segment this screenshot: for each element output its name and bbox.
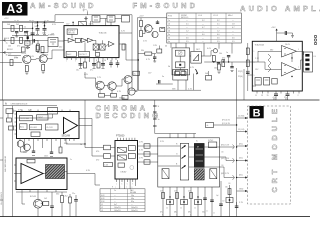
svg-text:10u: 10u [76, 70, 79, 72]
label row under delay pins [115, 187, 133, 189]
svg-text:2k7: 2k7 [174, 191, 177, 193]
svg-text:4b: 4b [165, 46, 167, 48]
wire [140, 27, 142, 31]
bus wire [243, 69, 245, 100]
ground [36, 34, 46, 36]
internal block 3 [117, 155, 126, 160]
svg-text:82p: 82p [131, 201, 134, 203]
wire [190, 55, 191, 57]
IC3100 AM demodulator [64, 26, 119, 58]
svg-text:B: B [253, 107, 261, 119]
ground [291, 36, 294, 38]
resistor R4501 [144, 144, 150, 148]
svg-text:22n: 22n [72, 193, 75, 195]
svg-text:1k: 1k [180, 208, 182, 210]
bias block B1 [255, 78, 261, 86]
op-amp U1a [282, 46, 297, 58]
resistor R4102 [9, 126, 14, 130]
svg-text:4.43: 4.43 [104, 165, 108, 167]
svg-text:—: — [202, 41, 204, 43]
svg-text:(R1): (R1) [239, 144, 243, 146]
delay IC top pin stubs [118, 138, 135, 141]
coil L3201 [160, 28, 165, 32]
capacitor C3212 [227, 56, 230, 57]
wire [65, 139, 67, 145]
svg-text:—: — [232, 34, 234, 36]
preset P4604 [226, 198, 233, 203]
svg-text:—: — [232, 31, 234, 33]
svg-text:MA-LUMINANCE: MA-LUMINANCE [0, 191, 3, 205]
capacitor C3201 [156, 20, 159, 24]
ground [15, 36, 18, 37]
wire [143, 29, 146, 34]
svg-text:BC548: BC548 [30, 196, 36, 198]
transistor T3203 [196, 69, 198, 75]
connector arrow 1a [3, 39, 8, 44]
wire [37, 192, 39, 199]
input connector box 4a [48, 108, 58, 115]
capacitor C4601 [203, 198, 207, 199]
diode D3102 (dark) [27, 31, 29, 41]
wire [37, 208, 39, 217]
svg-text:KILLER: KILLER [30, 127, 37, 129]
wire [179, 68, 181, 70]
resistor R3126 [122, 44, 125, 50]
mixer M1 [93, 44, 99, 50]
svg-text:(F2) 4.5V: (F2) 4.5V [222, 120, 231, 122]
svg-text:150: 150 [221, 165, 224, 167]
resistor R3101 [11, 37, 14, 43]
capacitor C4612 [235, 202, 239, 207]
delay pin drops [119, 182, 135, 189]
IC bottom pin stubs [20, 139, 74, 142]
transistor T4102 [24, 144, 31, 151]
svg-text:17mA: 17mA [89, 23, 95, 26]
wire table feeds [171, 43, 194, 51]
driver stage column [180, 143, 188, 180]
AM-SOUND section border [3, 15, 133, 100]
wire [110, 22, 112, 26]
phase shifter block [191, 51, 202, 63]
svg-text:1a0: 1a0 [8, 54, 11, 56]
wire [105, 94, 111, 96]
svg-text:0.6: 0.6 [232, 38, 235, 40]
IC4500 delay line [115, 141, 138, 180]
wire [152, 28, 153, 30]
ground [23, 152, 53, 156]
acc block [20, 124, 28, 130]
svg-text:—: — [202, 31, 204, 33]
resistor R4601 [162, 193, 165, 199]
resistor R3102 [20, 37, 23, 43]
resistor R3109 [22, 47, 26, 52]
ground [153, 61, 156, 62]
wire [85, 72, 97, 85]
edge connector pins [314, 35, 316, 44]
loudspeaker connector J7600 [304, 52, 317, 72]
svg-text:L 6.0: L 6.0 [198, 15, 202, 17]
transistor T3202 [152, 31, 158, 37]
bias block [162, 169, 169, 179]
svg-text:L1 6.5: L1 6.5 [213, 15, 218, 17]
pin labels [116, 184, 133, 186]
capacitor C7601 [277, 31, 293, 36]
wire [22, 192, 25, 204]
wire [178, 74, 194, 91]
svg-text:13: 13 [261, 95, 263, 97]
harness wire 2 [237, 129, 248, 132]
bottom pin stubs [163, 181, 230, 217]
demod block [31, 132, 40, 137]
bias block B2 [264, 78, 270, 86]
wire [3, 52, 23, 54]
svg-text:6.0: 6.0 [202, 34, 205, 36]
node [236, 146, 237, 147]
capacitor C4105 [32, 151, 35, 152]
svg-text:(G2) 3.1V: (G2) 3.1V [221, 158, 230, 160]
label cluster chroma [18, 110, 99, 173]
wire [8, 55, 21, 57]
internal block 2 [128, 146, 135, 151]
label cluster AM [7, 24, 125, 101]
wire [130, 89, 137, 91]
svg-text:5k6: 5k6 [205, 73, 208, 75]
bandpass filter FL3101 [48, 38, 58, 47]
wire [3, 27, 33, 29]
resistor R3211 [212, 56, 215, 62]
peaking block [27, 159, 35, 163]
svg-text:(B1): (B1) [239, 175, 243, 177]
wire [248, 74, 253, 76]
wire [228, 57, 230, 62]
wire [135, 91, 137, 93]
svg-text:L1: L1 [101, 204, 103, 206]
left input chain [246, 43, 252, 91]
connector labels P3 [238, 71, 251, 78]
capacitor C3105 [15, 32, 18, 37]
AF amp block [173, 70, 188, 81]
svg-text:DETECT: DETECT [79, 54, 87, 56]
svg-text:IDENT: IDENT [37, 117, 44, 119]
wire [291, 53, 293, 62]
FM-SOUND section border [137, 18, 201, 90]
wire [116, 79, 124, 86]
wire [17, 114, 53, 118]
filter box F2 [25, 41, 30, 45]
svg-text:L3: L3 [101, 210, 103, 212]
resistor R4122 [104, 154, 111, 159]
svg-text:68p: 68p [131, 198, 134, 200]
svg-text:100n: 100n [14, 57, 18, 59]
wire [41, 46, 48, 53]
transistor T3102 [39, 53, 47, 63]
node [84, 143, 85, 144]
sync block [208, 142, 216, 148]
resistor R4113 [69, 194, 72, 217]
svg-text:MHz I: MHz I [228, 15, 233, 17]
svg-text:100u/5%: 100u/5% [114, 210, 121, 212]
transistor arrow G [182, 155, 186, 158]
resistor R3122 [97, 62, 100, 68]
luma delay module box [16, 158, 67, 190]
wire [179, 56, 181, 62]
internal block 1 [117, 147, 126, 152]
component value table [100, 189, 145, 212]
mixer M2 [100, 44, 106, 50]
supply decoder block [67, 29, 77, 35]
svg-text:—: — [186, 20, 188, 22]
svg-text:50c: 50c [202, 212, 205, 214]
svg-text:258: 258 [45, 55, 48, 57]
wire [111, 147, 116, 149]
svg-text:150: 150 [221, 152, 224, 154]
svg-text:4a: 4a [168, 41, 170, 43]
svg-text:680: 680 [270, 50, 273, 52]
svg-text:CHROMA: CHROMA [20, 117, 29, 120]
capacitor C3101 [35, 22, 40, 34]
chroma amp block [20, 116, 33, 121]
svg-text:Cx: Cx [114, 190, 116, 192]
preset P4602 [181, 200, 188, 205]
connector B2 [221, 173, 235, 180]
connector arrow 1b [3, 51, 7, 56]
capacitor C3216 [159, 80, 160, 83]
svg-text:1: 1 [254, 51, 255, 53]
svg-text:48c: 48c [174, 212, 177, 214]
+26V feed arrow [271, 27, 278, 42]
svg-text:3b: 3b [168, 38, 170, 40]
svg-text:+12V: +12V [34, 23, 39, 25]
wire AM out [119, 44, 137, 60]
node [213, 61, 214, 62]
node J1 [37, 22, 38, 23]
svg-text:1k: 1k [194, 208, 196, 210]
capacitor C4106 [50, 152, 53, 153]
svg-text:5: 5 [254, 75, 255, 77]
delay line block (hatched) [46, 165, 65, 179]
svg-text:+12V: +12V [139, 16, 144, 18]
wire [79, 119, 92, 126]
fm component cluster [201, 48, 252, 70]
FM vertical feeds [204, 43, 232, 56]
svg-text:15: 15 [267, 95, 269, 97]
wire [65, 171, 68, 173]
resistor R4101 [7, 118, 12, 122]
svg-text:1.2: 1.2 [217, 31, 220, 33]
op-amp U1b [282, 63, 297, 77]
output wire G [220, 157, 234, 161]
audio bus wire down [236, 68, 238, 217]
electrolytic C3121 [76, 62, 83, 72]
svg-text:470: 470 [222, 58, 225, 60]
decoupling caps below [273, 91, 290, 101]
resistor R3108 [10, 60, 13, 66]
resistor R3201 [140, 21, 143, 27]
node [138, 59, 139, 60]
svg-text:2: 2 [298, 95, 299, 97]
svg-text:1.2: 1.2 [186, 31, 189, 33]
svg-text:11: 11 [111, 61, 113, 63]
svg-text:7: 7 [298, 67, 299, 69]
wire [119, 32, 132, 34]
svg-text:1a: 1a [168, 20, 170, 22]
wire [100, 18, 107, 20]
resistor R3110 [36, 46, 39, 52]
label cluster [8, 35, 27, 48]
svg-text:8: 8 [96, 60, 97, 62]
transistor T3201 [144, 25, 152, 33]
output amp A4 [109, 41, 115, 46]
svg-text:—: — [217, 27, 219, 29]
capacitor C3110 [84, 17, 88, 21]
resistor R3105 [11, 25, 14, 31]
resistor R3107 [37, 44, 40, 50]
svg-text:A: A [5, 103, 7, 106]
resistor R4603 [190, 193, 193, 199]
internal block 4 [128, 154, 135, 159]
sheet label A3 badge [2, 2, 28, 16]
section divider line (full width) [0, 99, 320, 101]
ref block [96, 53, 100, 57]
transistor T3104 [108, 82, 116, 90]
resistor R3132 [111, 94, 117, 98]
limiter amp A1 [68, 38, 74, 42]
clock block [46, 124, 59, 130]
svg-text:0.6: 0.6 [186, 38, 189, 40]
svg-text:(G1): (G1) [239, 158, 243, 160]
ident block [37, 115, 49, 120]
svg-text:1k: 1k [206, 211, 208, 213]
wire [99, 90, 101, 94]
label cluster bottom chains [162, 195, 225, 217]
svg-text:3.2: 3.2 [202, 20, 205, 22]
wire [115, 18, 122, 20]
IF input wire [3, 39, 49, 41]
svg-text:x2: x2 [31, 44, 33, 46]
svg-text:100u/5%: 100u/5% [131, 207, 138, 209]
quadrature demod container [172, 48, 190, 75]
resistor R3111 [41, 47, 44, 53]
svg-text:100u/5%: 100u/5% [131, 210, 138, 212]
svg-text:2k7: 2k7 [160, 191, 163, 193]
svg-text:(B2) 3.2V: (B2) 3.2V [221, 173, 230, 175]
wires left feeds [158, 146, 181, 166]
svg-text:TDA1046: TDA1046 [99, 32, 107, 35]
matrix IC block (dark) [194, 143, 204, 167]
svg-text:CRT MODULE: CRT MODULE [270, 105, 279, 192]
svg-text:10k: 10k [219, 53, 222, 55]
svg-text:B: B [190, 215, 191, 217]
bottom ground bus line [0, 216, 310, 218]
resistor R3221 [138, 52, 156, 55]
svg-text:6.0: 6.0 [217, 34, 220, 36]
svg-text:DECOD: DECOD [68, 33, 75, 35]
resistor R3121 [84, 62, 87, 68]
resistor R3133 [122, 96, 128, 100]
svg-text:4.7: 4.7 [232, 27, 235, 29]
preset P4601 [167, 200, 174, 205]
svg-text:4c: 4c [207, 125, 209, 127]
output wire OUT2 [297, 60, 304, 69]
transistor T4103 [34, 199, 43, 208]
svg-text:—: — [186, 27, 188, 29]
svg-text:1k: 1k [213, 213, 215, 215]
measurement table [167, 13, 242, 43]
svg-text:330: 330 [56, 194, 59, 196]
wire delay to matrix [138, 146, 158, 162]
luminance amp triangle [21, 164, 43, 184]
svg-text:DECODING: DECODING [96, 111, 162, 120]
CHROMA section header rule [3, 105, 57, 107]
tick marks left border [0, 40, 3, 200]
wire [201, 51, 213, 56]
chroma IC top pin stubs [22, 110, 70, 112]
svg-text:5: 5 [127, 184, 128, 186]
svg-text:SYNC: SYNC [208, 140, 214, 142]
svg-text:0.6: 0.6 [217, 38, 220, 40]
svg-text:12.2V: 12.2V [14, 21, 20, 23]
svg-text:470: 470 [17, 46, 20, 48]
IC pin stubs bottom [67, 58, 116, 62]
4b feed arc [83, 10, 88, 15]
resistor R3131 [99, 94, 105, 98]
RGB matrix module box [158, 138, 220, 187]
svg-text:FM-SOUND: FM-SOUND [133, 1, 199, 10]
svg-text:—: — [202, 24, 204, 26]
svg-text:2n2: 2n2 [222, 201, 225, 203]
ground [25, 72, 44, 74]
svg-text:4.43: 4.43 [101, 195, 104, 197]
svg-text:ACC: ACC [20, 125, 25, 128]
svg-text:MA-CHROMA 4.43: MA-CHROMA 4.43 [4, 156, 7, 172]
blanking block [210, 169, 217, 179]
label cluster FM [143, 41, 225, 79]
capacitor C4111 [74, 195, 78, 217]
transistor T3106 [128, 88, 135, 95]
ground [37, 52, 40, 53]
killer block [30, 125, 42, 130]
IC left pin stubs [15, 114, 17, 134]
svg-text:1.8: 1.8 [232, 24, 235, 26]
svg-text:150: 150 [228, 183, 231, 185]
preset P4603 [195, 200, 202, 205]
svg-text:41c: 41c [285, 99, 288, 101]
transistor arrow R [182, 145, 186, 148]
svg-text:4.7: 4.7 [202, 27, 205, 29]
label cluster [207, 48, 228, 70]
wire [222, 60, 224, 62]
svg-text:5k6: 5k6 [7, 24, 10, 26]
resistor R4112 [61, 192, 64, 217]
small box left of delay [104, 163, 113, 167]
wire [127, 84, 129, 96]
svg-text:1k: 1k [166, 208, 168, 210]
label cluster delay [112, 142, 144, 189]
electrolytic C7612 [284, 91, 290, 100]
feedback resistor network [268, 54, 271, 72]
AGC detector block [78, 52, 89, 57]
svg-text:4u7: 4u7 [114, 204, 117, 206]
electrolytic C3122 [90, 62, 96, 72]
+12V rail wire [137, 17, 167, 19]
supply arrow [34, 23, 47, 27]
matrix labels [160, 140, 214, 214]
resistor R3222 [157, 46, 162, 54]
wire [58, 40, 64, 42]
resistor R3103 [25, 66, 28, 72]
top pin stubs [170, 134, 194, 138]
wire [21, 147, 28, 152]
